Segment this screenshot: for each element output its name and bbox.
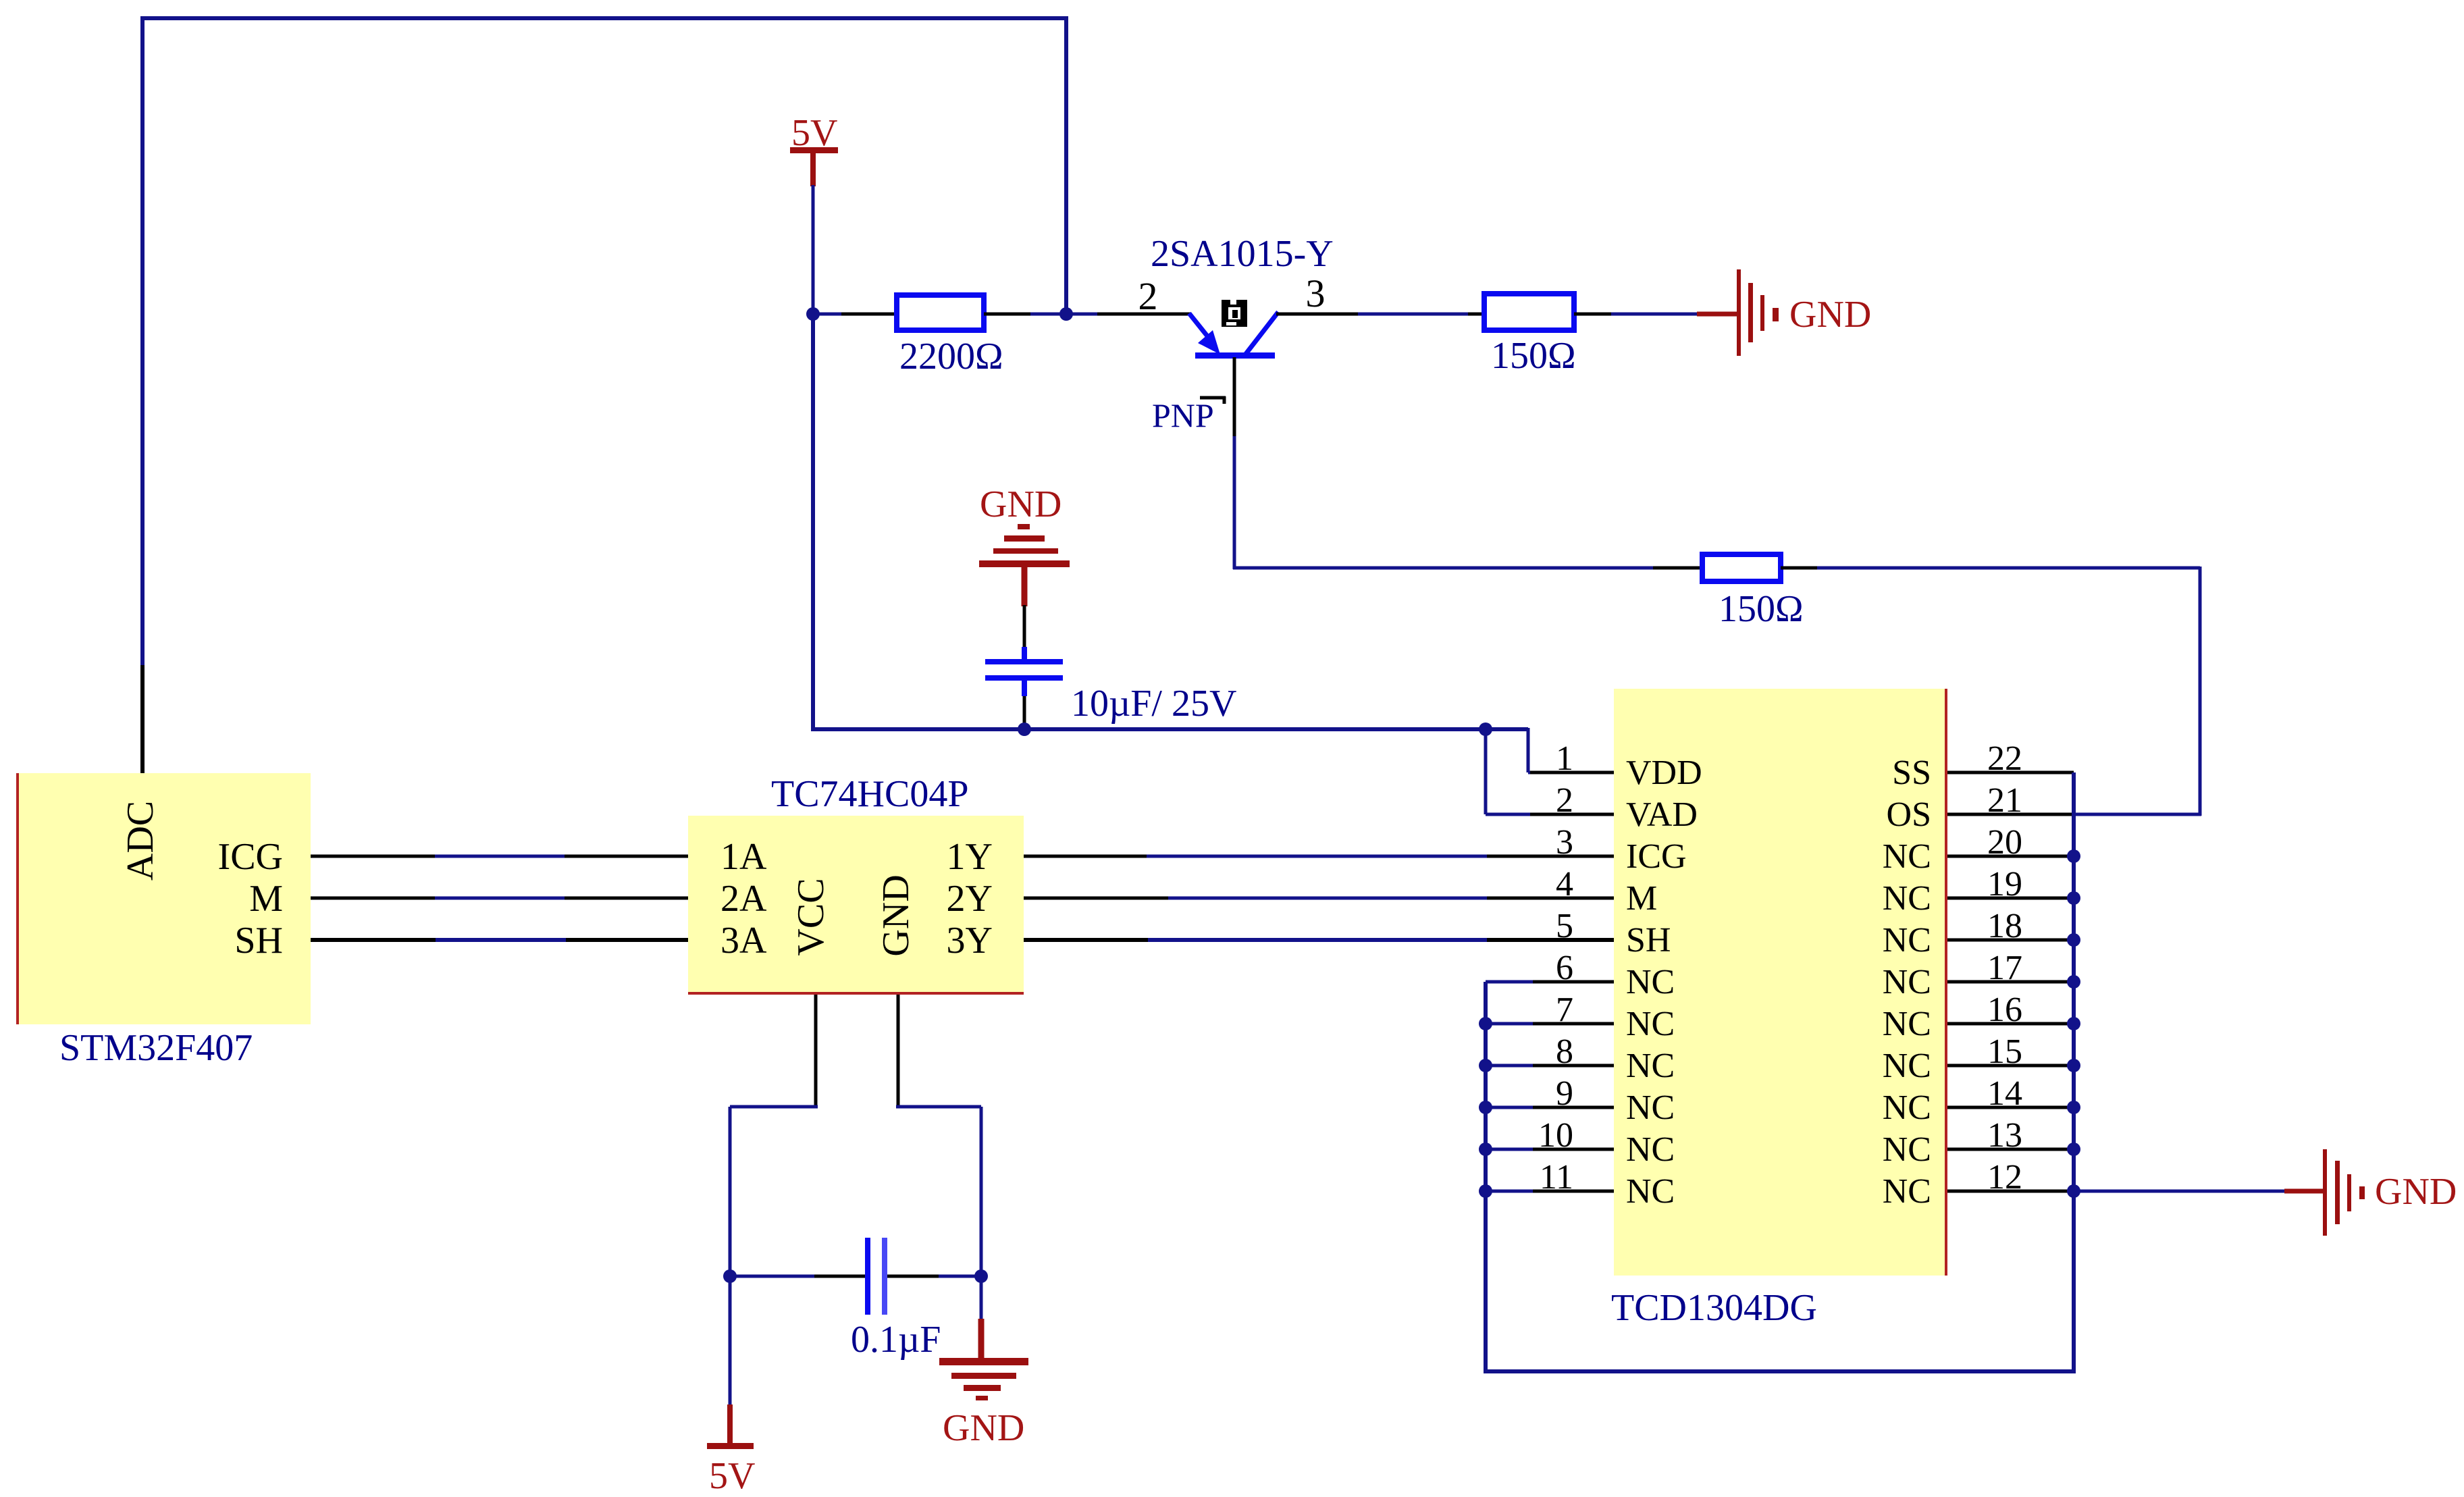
wire: NC elbow row 1454 [1486, 980, 1533, 984]
svg-text:TCD1304DG: TCD1304DG [1611, 1287, 1817, 1329]
junction dot right NC bus [2067, 933, 2080, 947]
svg-text:11: 11 [1540, 1158, 1573, 1197]
TCD pin 1 stub [1530, 771, 1614, 774]
wire: resistor row right segment [984, 313, 1033, 316]
wire: 150ohm to GND [1574, 313, 1614, 316]
junction dot left NC bus [1479, 1143, 1492, 1156]
transistor pin 1 tiny glyph [1222, 300, 1247, 327]
wire: M row STM32 to U2 [311, 897, 438, 900]
svg-text:10µF/ 25V: 10µF/ 25V [1071, 683, 1236, 725]
wire: VCC to 5V [730, 1105, 818, 1109]
svg-text:2: 2 [1556, 781, 1573, 820]
wire: GND to earth [896, 1105, 981, 1109]
wire: VAD elbow [1484, 728, 1488, 814]
svg-text:15: 15 [1987, 1032, 2022, 1071]
svg-text:21: 21 [1987, 781, 2022, 820]
svg-text:12: 12 [1987, 1158, 2022, 1197]
GND power symbol (bottom middle) [980, 1276, 983, 1321]
svg-text:150Ω: 150Ω [1719, 588, 1804, 630]
junction dot right NC bus [2067, 1184, 2080, 1198]
junction dot right NC bus [2067, 1059, 2080, 1072]
svg-text:GND: GND [1789, 294, 1871, 336]
svg-text:6: 6 [1556, 949, 1573, 987]
svg-text:3: 3 [1306, 271, 1326, 315]
svg-text:M: M [1626, 879, 1657, 918]
svg-text:18: 18 [1987, 907, 2022, 945]
svg-text:SS: SS [1892, 754, 1931, 792]
TCD pin 13 stub [1947, 1148, 2074, 1151]
wire: NC elbow row 1578 [1486, 1064, 1533, 1068]
svg-text:0.1µF: 0.1µF [851, 1319, 941, 1361]
svg-text:GND: GND [875, 874, 917, 956]
svg-text:16: 16 [1987, 991, 2022, 1029]
svg-text:2: 2 [1138, 274, 1158, 318]
wire: supply row horizontal (5V net to TCD VDD/VAD) [811, 313, 815, 729]
svg-text:NC: NC [1883, 1088, 1931, 1127]
svg-text:NC: NC [1626, 1172, 1675, 1211]
svg-text:NC: NC [1626, 1130, 1675, 1169]
svg-text:STM32F407: STM32F407 [59, 1027, 253, 1069]
TCD pin 11 stub [1530, 1190, 1614, 1193]
wire: 3Y row U2 to TCD pin5 [1024, 938, 1151, 942]
svg-text:2Y: 2Y [947, 878, 993, 920]
wire: NC elbow row 1640 [1486, 1106, 1533, 1109]
junction dot right of C2 [974, 1269, 988, 1283]
svg-text:NC: NC [1883, 963, 1931, 1001]
svg-text:NC: NC [1626, 1088, 1675, 1127]
TCD pin 8 stub [1530, 1064, 1614, 1068]
TCD pin 17 stub [1947, 980, 2074, 984]
svg-text:ICG: ICG [1626, 837, 1687, 876]
svg-text:13: 13 [1987, 1116, 2022, 1155]
svg-text:VAD: VAD [1626, 795, 1698, 834]
svg-text:GND: GND [2375, 1171, 2457, 1213]
svg-text:OS: OS [1887, 795, 1931, 834]
wire: C1 to supply row [1023, 696, 1026, 729]
capacitor C2 0.1uF [865, 1238, 887, 1315]
GND power symbol (top right) [1697, 269, 1779, 356]
IC U2 TC74HC04P block [688, 816, 1024, 995]
wire: NC bus right vertical (SS down) [2072, 772, 2076, 1373]
svg-text:3: 3 [1556, 823, 1573, 862]
IC U1 STM32F407 block [17, 773, 311, 1024]
TCD pin 16 stub [1947, 1022, 2074, 1026]
svg-text:1A: 1A [720, 836, 767, 878]
svg-text:PNP: PNP [1152, 396, 1214, 434]
svg-text:M: M [249, 878, 283, 920]
svg-text:1: 1 [1556, 739, 1573, 778]
wire: riser down to OS pin row [2199, 567, 2202, 816]
svg-text:3Y: 3Y [947, 920, 993, 962]
svg-text:VDD: VDD [1626, 754, 1702, 792]
svg-text:3A: 3A [720, 920, 767, 962]
wire: top horizontal [140, 16, 1066, 20]
TCD pin 5 stub [1530, 939, 1614, 942]
svg-text:22: 22 [1987, 739, 2022, 778]
svg-text:ADC: ADC [120, 801, 161, 881]
GND power symbol (bottom right) [2284, 1149, 2365, 1236]
junction dot right NC bus [2067, 1101, 2080, 1114]
svg-text:2200Ω: 2200Ω [899, 336, 1003, 377]
svg-text:NC: NC [1883, 837, 1931, 876]
TCD pin 19 stub [1947, 897, 2074, 900]
junction dot right NC bus [2067, 891, 2080, 905]
svg-text:NC: NC [1626, 1047, 1675, 1085]
TCD pin 3 stub [1530, 855, 1614, 858]
wire: NC elbow row 1764 [1486, 1190, 1533, 1193]
junction dot left of C2 [723, 1269, 737, 1283]
TCD pin 20 stub [1947, 855, 2074, 858]
wire: base lead down [1233, 357, 1236, 439]
TCD pin 6 stub [1530, 980, 1614, 984]
TCD pin 14 stub [1947, 1106, 2074, 1109]
svg-text:NC: NC [1883, 1005, 1931, 1043]
svg-text:8: 8 [1556, 1032, 1573, 1071]
wire: 1Y row U2 to TCD pin3 [1024, 855, 1149, 858]
wire: GND to C1 [1023, 605, 1026, 648]
svg-text:4: 4 [1556, 865, 1573, 903]
TCD pin 2 stub [1530, 813, 1614, 816]
wire: U2 GND pin down [897, 995, 900, 1107]
wire: ADC net vertical left side [140, 18, 145, 668]
TCD pin 10 stub [1530, 1148, 1614, 1151]
wire: U2 VCC pin down [814, 995, 818, 1107]
TCD pin 4 stub [1530, 897, 1614, 900]
svg-text:10: 10 [1538, 1116, 1573, 1155]
svg-text:SH: SH [234, 920, 283, 962]
TCD pin 22 stub [1947, 771, 2074, 774]
svg-text:TC74HC04P: TC74HC04P [771, 773, 969, 815]
svg-text:5: 5 [1556, 907, 1573, 945]
svg-text:19: 19 [1987, 865, 2022, 903]
wire: decoupling row [730, 1275, 817, 1278]
junction dot right NC bus [2067, 849, 2080, 863]
wire: resistor row left segment [813, 313, 844, 316]
resistor R2 150ohm [1484, 294, 1574, 330]
svg-text:GND: GND [980, 483, 1061, 525]
wire: base row horizontal to 150ohm#2 [1233, 567, 1656, 570]
wire: collector to 150ohm [1276, 313, 1361, 316]
junction dot left NC bus [1479, 1101, 1492, 1114]
junction dot left NC bus [1479, 1059, 1492, 1072]
svg-text:20: 20 [1987, 823, 2022, 862]
wire: 5V to junction [812, 185, 815, 314]
svg-text:NC: NC [1883, 1172, 1931, 1211]
wire: VDD elbow [1527, 728, 1530, 772]
junction dot left NC bus [1479, 1017, 1492, 1030]
wire: NC elbow row 1702 [1486, 1148, 1533, 1151]
svg-text:NC: NC [1883, 879, 1931, 918]
svg-text:9: 9 [1556, 1074, 1573, 1113]
junction dot C1/supply row [1018, 723, 1031, 736]
svg-text:VCC: VCC [790, 878, 832, 955]
svg-text:14: 14 [1987, 1074, 2022, 1113]
junction dot right NC bus [2067, 1143, 2080, 1156]
wire: OS row to riser [2074, 813, 2201, 816]
svg-text:ICG: ICG [218, 836, 283, 878]
transistor Q1 2SA1015-Y (PNP) [1189, 312, 1278, 359]
svg-text:7: 7 [1556, 991, 1573, 1029]
junction dot at 5V/R1 node [806, 307, 820, 321]
svg-text:GND: GND [943, 1407, 1024, 1449]
wire: NC bus left vertical [1484, 982, 1488, 1371]
svg-text:NC: NC [1626, 963, 1675, 1001]
junction dot supply row / VAD branch [1479, 723, 1492, 736]
svg-text:NC: NC [1883, 1130, 1931, 1169]
resistor R1 2200ohm [897, 295, 984, 330]
junction dot right NC bus [2067, 1017, 2080, 1030]
junction dot left NC bus [1479, 1184, 1492, 1198]
TCD pin 21 stub [1947, 813, 2074, 816]
wire: SH row STM32 to U2 [311, 938, 438, 942]
capacitor C1 10uF/25V [985, 647, 1063, 696]
wire: 2Y row U2 to TCD pin4 [1024, 897, 1171, 900]
wire: NC bus bottom horizontal [1484, 1369, 2076, 1373]
svg-text:5V: 5V [709, 1455, 755, 1497]
TCD pin 15 stub [1947, 1064, 2074, 1068]
wire: vertical drop to resistor row [1064, 16, 1068, 314]
TCD pin 18 stub [1947, 939, 2074, 942]
svg-text:NC: NC [1883, 1047, 1931, 1085]
svg-text:2A: 2A [720, 878, 767, 920]
5V power symbol (bottom) [729, 1276, 732, 1407]
svg-text:150Ω: 150Ω [1491, 335, 1576, 377]
svg-text:SH: SH [1626, 921, 1671, 960]
wire: ICG row STM32 to U2 [311, 855, 438, 858]
junction dot at R1/base-drive node [1059, 307, 1073, 321]
svg-text:1Y: 1Y [947, 836, 993, 878]
svg-text:NC: NC [1883, 921, 1931, 960]
svg-text:NC: NC [1626, 1005, 1675, 1043]
IC U3 TCD1304DG block [1614, 689, 1947, 1276]
svg-text:2SA1015-Y: 2SA1015-Y [1151, 233, 1334, 275]
junction dot right NC bus [2067, 975, 2080, 989]
svg-text:17: 17 [1987, 949, 2022, 987]
TCD pin 7 stub [1530, 1022, 1614, 1026]
wire: NC elbow row 1516 [1486, 1022, 1533, 1026]
TCD pin 9 stub [1530, 1106, 1614, 1109]
resistor R3 150ohm [1702, 554, 1781, 581]
TCD pin 12 stub [1947, 1190, 2074, 1193]
wire: pin12 row to GND [2074, 1190, 2286, 1193]
